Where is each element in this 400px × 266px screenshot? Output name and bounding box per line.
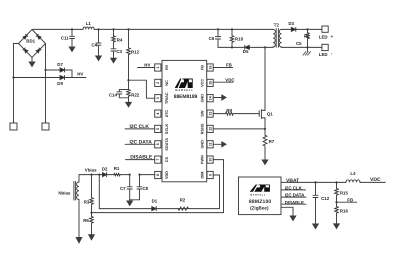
ground (334, 224, 340, 229)
svg-text:R3: R3 (84, 199, 90, 204)
diode D2 (103, 173, 107, 177)
svg-text:MARVELL: MARVELL (250, 194, 266, 197)
pin 11 (207, 141, 213, 148)
svg-text:C8: C8 (143, 186, 149, 191)
svg-text:C14: C14 (109, 92, 118, 97)
svg-text:C5: C5 (296, 41, 302, 46)
capacitor C7 (127, 175, 132, 200)
pin 5 (155, 125, 161, 132)
svg-text:FB: FB (226, 62, 232, 67)
node (231, 46, 233, 48)
resistor R9 (213, 112, 259, 115)
node (90, 212, 92, 214)
pin 9 (207, 171, 213, 178)
capacitor C4 (96, 29, 101, 56)
resistor R2b (178, 207, 188, 210)
ground (262, 149, 268, 165)
wire Q1 drain (264, 47, 266, 110)
resistor R22 (127, 90, 131, 98)
transformer T2 secondary (279, 29, 281, 47)
node (138, 174, 140, 176)
pin 12 (207, 125, 213, 132)
svg-text:R16: R16 (340, 209, 349, 214)
pin 16 (207, 64, 213, 71)
svg-text:GND: GND (201, 94, 205, 103)
pin 8 (155, 171, 161, 178)
svg-text:88MZ100: 88MZ100 (249, 199, 272, 205)
svg-text:10: 10 (208, 158, 212, 162)
svg-text:PWR: PWR (201, 155, 205, 164)
node (264, 128, 266, 130)
svg-text:R1: R1 (114, 166, 120, 171)
svg-text:NC: NC (165, 80, 169, 86)
node (90, 174, 92, 176)
wire PWR DET pin 10 (92, 160, 224, 213)
svg-text:SW: SW (201, 110, 205, 117)
svg-text:VCC: VCC (201, 79, 205, 87)
node (335, 201, 337, 203)
svg-text:R2: R2 (304, 34, 310, 39)
svg-text:I2C CLK: I2C CLK (285, 185, 303, 190)
diode D5 (232, 45, 273, 49)
svg-text:D1: D1 (152, 198, 158, 203)
svg-text:12: 12 (208, 127, 212, 131)
resistor R18 (230, 29, 234, 47)
ground (313, 224, 319, 229)
svg-text:I2C DATA: I2C DATA (130, 139, 153, 145)
wire DISABLE stub (281, 203, 306, 205)
diode D7 (46, 68, 73, 78)
wire (140, 174, 155, 176)
inductor L4 (346, 180, 360, 183)
ground pin 11 (213, 142, 226, 147)
capacitor C5 wire to chassis (307, 47, 309, 51)
svg-text:13: 13 (208, 112, 212, 116)
svg-text:VDD: VDD (165, 171, 169, 179)
svg-text:C4: C4 (91, 43, 97, 48)
resistor R6 (90, 213, 94, 235)
svg-text:T2: T2 (274, 22, 280, 27)
svg-text:HV: HV (165, 64, 169, 70)
wire VBAT (281, 181, 346, 183)
svg-text:D2: D2 (102, 167, 108, 172)
svg-text:C7: C7 (120, 186, 126, 191)
wire (282, 46, 322, 48)
capacitor C8 (131, 175, 143, 200)
svg-text:2: 2 (156, 82, 160, 84)
svg-text:VBAT: VBAT (286, 178, 299, 184)
capacitor C14 (117, 80, 129, 98)
svg-text:VDC: VDC (370, 177, 381, 183)
resistor R4 (112, 29, 116, 48)
svg-text:R15: R15 (340, 191, 349, 196)
svg-text:L4: L4 (350, 171, 356, 176)
svg-text:4: 4 (156, 113, 160, 115)
wire DIM pin 9 (99, 175, 219, 209)
svg-text:ATC: ATC (165, 110, 169, 118)
svg-text:R22: R22 (131, 92, 140, 97)
svg-text:DISABLE: DISABLE (130, 155, 153, 161)
wire FB stub pin 16 (213, 67, 232, 69)
node (44, 69, 46, 71)
node (231, 28, 233, 30)
svg-text:16: 16 (208, 66, 212, 70)
resistor R3 (90, 175, 94, 213)
node (129, 174, 131, 176)
svg-text:C6: C6 (209, 36, 215, 41)
diode D1 (152, 207, 156, 211)
svg-text:R12: R12 (131, 50, 140, 55)
inductor L1 (83, 27, 94, 29)
node (264, 46, 266, 48)
svg-text:C11: C11 (61, 36, 69, 41)
svg-text:C3: C3 (116, 49, 122, 54)
svg-text:FB: FB (201, 65, 205, 70)
LED+ terminal (322, 26, 328, 32)
transformer T2 primary (273, 29, 275, 47)
svg-text:DISABLE: DISABLE (285, 200, 304, 205)
svg-text:TRIAC: TRIAC (165, 92, 169, 104)
wire (45, 44, 47, 124)
svg-text:I2C DATA: I2C DATA (285, 193, 305, 198)
wire (94, 28, 273, 30)
wire I2C DATA to pin 6 (125, 143, 155, 145)
capacitor C12 (313, 182, 318, 224)
svg-text:GND: GND (201, 140, 205, 149)
AC input terminal (10, 123, 17, 130)
svg-text:FB: FB (347, 197, 353, 202)
ground U2 (281, 207, 296, 220)
ground chassis (303, 52, 311, 56)
transformer T2 core (276, 29, 278, 48)
op-amp U1 logo Marvell (175, 79, 193, 88)
ground (89, 235, 95, 240)
svg-text:R9: R9 (226, 108, 232, 113)
wire VDC (360, 181, 385, 183)
wire (32, 28, 83, 30)
wire pin 12 RSNS (213, 128, 265, 130)
svg-text:3: 3 (156, 97, 160, 99)
ground (127, 200, 133, 206)
diode D3 (291, 27, 322, 31)
resistor R7 (263, 135, 267, 148)
svg-text:CS: CS (165, 156, 169, 162)
node (127, 28, 129, 30)
svg-text:SDATA: SDATA (165, 138, 169, 151)
svg-text:88EM8189: 88EM8189 (174, 94, 198, 100)
node (97, 28, 99, 30)
svg-text:11: 11 (208, 142, 212, 146)
svg-text:+: + (331, 34, 334, 39)
pin 2 (155, 79, 161, 86)
svg-text:R6: R6 (83, 218, 89, 223)
op-amp U1 88EM8189 body (162, 60, 207, 181)
node (12, 76, 14, 78)
IC U2 logo Marvell (250, 185, 270, 192)
svg-text:VDC: VDC (225, 77, 235, 82)
svg-text:8: 8 (156, 174, 160, 176)
capacitor C6 (215, 29, 232, 47)
svg-text:R7: R7 (269, 139, 275, 144)
svg-text:C12: C12 (321, 196, 330, 201)
svg-text:D5: D5 (243, 49, 249, 54)
pin 1 (155, 64, 161, 71)
node (127, 79, 129, 81)
svg-text:Nbias: Nbias (58, 191, 71, 196)
svg-text:7: 7 (156, 159, 160, 161)
ground (96, 56, 102, 61)
node (217, 28, 219, 30)
pin 4 (155, 110, 161, 117)
svg-text:I2C CLK: I2C CLK (130, 124, 150, 130)
capacitor C11 (70, 29, 75, 47)
pin 10 (207, 156, 213, 163)
wire FB stub (337, 201, 357, 203)
ground (126, 98, 132, 107)
capacitor C3 (111, 49, 116, 58)
LED- terminal (322, 44, 328, 50)
ground pin 14 (213, 95, 226, 100)
ground (111, 58, 117, 63)
svg-text:R18: R18 (235, 37, 244, 42)
inductor Nbias winding (74, 175, 79, 238)
node (71, 28, 73, 30)
pin 15 (207, 79, 213, 86)
ground (29, 58, 35, 67)
svg-text:DIM: DIM (201, 172, 205, 179)
ground (76, 238, 82, 243)
ground (69, 47, 75, 52)
svg-text:R4: R4 (117, 37, 123, 42)
svg-text:MARVELL: MARVELL (175, 89, 194, 92)
svg-text:SCLK: SCLK (165, 123, 169, 134)
svg-text:(ZigBee): (ZigBee) (250, 205, 269, 210)
resistor R12 (127, 29, 131, 80)
svg-text:6: 6 (156, 143, 160, 145)
wire (129, 80, 155, 98)
svg-text:BD1: BD1 (26, 39, 35, 44)
wire (14, 44, 19, 124)
node HV wire to pin 1 (138, 67, 155, 69)
svg-text:Q1: Q1 (267, 112, 273, 117)
node (306, 28, 308, 30)
svg-text:D9: D9 (57, 81, 63, 86)
svg-text:9: 9 (208, 174, 212, 176)
svg-text:1: 1 (156, 67, 160, 69)
bridge rectifier BD1 (19, 30, 46, 58)
wire Vbias rail (79, 174, 130, 176)
wire (98, 175, 100, 209)
svg-text:HV: HV (144, 63, 150, 68)
resistor R16 (335, 202, 339, 223)
svg-text:D3: D3 (288, 21, 294, 26)
svg-text:HV: HV (77, 71, 83, 76)
wire VDC stub pin 15 (213, 81, 233, 83)
resistor R2 (306, 29, 309, 47)
svg-text:D7: D7 (57, 62, 63, 67)
svg-text:14: 14 (208, 96, 212, 100)
pin 7 (155, 156, 161, 163)
svg-text:15: 15 (208, 81, 212, 85)
svg-text:RSNS: RSNS (201, 123, 205, 134)
pin 6 (155, 141, 161, 148)
IC U2 88MZ100 body (239, 177, 282, 215)
svg-text:LED: LED (319, 52, 328, 57)
wire DISABLE to pin 7 (126, 159, 155, 161)
svg-text:LED: LED (319, 34, 328, 39)
AC input terminal (42, 123, 49, 130)
wire (282, 28, 292, 30)
wire I2C DATA stub (281, 196, 306, 198)
node (314, 181, 316, 183)
diode D9 (14, 76, 87, 80)
wire I2C CLK to pin 5 (125, 128, 155, 130)
node (98, 174, 100, 176)
wire Q1 source (264, 118, 266, 135)
svg-text:R2: R2 (180, 198, 186, 203)
resistor R15 (335, 182, 339, 203)
pin 3 (155, 95, 161, 102)
svg-text:5: 5 (156, 128, 160, 130)
svg-text:Vbias: Vbias (85, 168, 97, 173)
wire I2C CLK stub (281, 189, 306, 191)
node (306, 46, 308, 48)
node (335, 181, 337, 183)
node (112, 28, 114, 30)
svg-text:L1: L1 (86, 21, 92, 26)
pin 14 (207, 95, 213, 102)
pin 13 (207, 110, 213, 117)
transistor Q1 (259, 104, 265, 122)
resistor R1 (114, 173, 120, 176)
